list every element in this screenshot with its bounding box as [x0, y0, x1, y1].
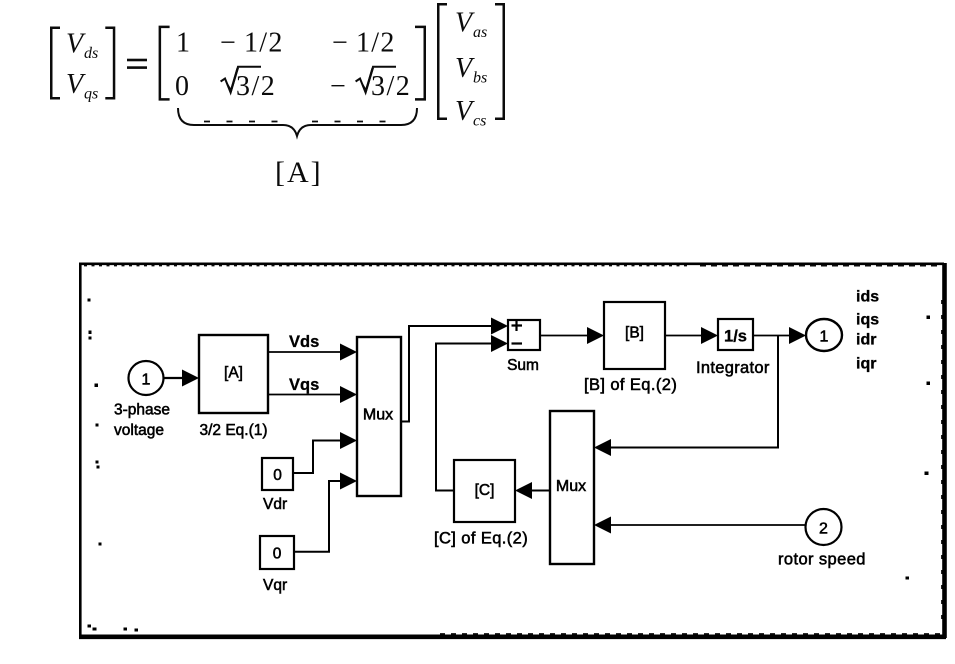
svg-text:− 1/2: − 1/2: [220, 28, 284, 59]
svg-text:1: 1: [176, 28, 190, 59]
svg-text:[B]: [B]: [625, 325, 644, 342]
sum plus sign: [512, 320, 523, 332]
svg-text:Vds: Vds: [289, 333, 319, 351]
svg-text:Sum: Sum: [507, 357, 539, 374]
wire B to integrator: [665, 327, 718, 344]
RHS vector right bracket: [495, 3, 505, 120]
svg-text:Integrator: Integrator: [696, 359, 770, 377]
svg-text:−: −: [330, 71, 346, 102]
scan noise: [84, 266, 942, 634]
svg-text:3/2 Eq.(1): 3/2 Eq.(1): [199, 422, 267, 439]
svg-text:Vdr: Vdr: [263, 496, 287, 513]
svg-text:idr: idr: [856, 332, 876, 349]
inport 2 circle: [806, 509, 842, 545]
equation group: [50, 3, 505, 189]
sum minus sign: [512, 342, 523, 344]
svg-text:V: V: [455, 8, 475, 39]
sum block: [508, 320, 540, 350]
svg-text:Mux: Mux: [556, 478, 586, 495]
wire mux1 to sum plus: [401, 318, 508, 422]
wire Vqs: [268, 386, 357, 403]
svg-text:V: V: [455, 53, 475, 84]
svg-text:as: as: [473, 24, 487, 41]
svg-text:V: V: [455, 96, 475, 127]
svg-text:0: 0: [273, 546, 282, 563]
wire in2 to mux2: [594, 517, 806, 534]
svg-text:cs: cs: [473, 113, 486, 130]
mux 2: [550, 411, 594, 564]
diagram group: [79, 263, 946, 638]
svg-text:[B] of Eq.(2): [B] of Eq.(2): [584, 376, 677, 394]
svg-text:V: V: [66, 69, 86, 100]
wire Vds: [268, 344, 357, 361]
underbrace: [178, 108, 417, 136]
svg-text:1: 1: [142, 372, 151, 389]
svg-text:[C] of Eq.(2): [C] of Eq.(2): [434, 530, 528, 548]
outport 1 circle: [806, 319, 842, 351]
svg-text:rotor speed: rotor speed: [778, 551, 866, 569]
matrix entry -sqrt3/2 (row2 col3): [330, 67, 411, 102]
svg-text:3-phase: 3-phase: [114, 402, 170, 419]
svg-text:iqs: iqs: [856, 312, 879, 329]
matrix right bracket: [415, 26, 426, 101]
svg-text:3/2: 3/2: [371, 71, 411, 102]
svg-text:1/s: 1/s: [724, 328, 747, 346]
equals sign: [127, 59, 147, 62]
wire C to sum minus: [436, 335, 508, 491]
border frame: [79, 263, 946, 638]
block B: [604, 302, 665, 369]
wire mux2 to C: [515, 482, 550, 499]
svg-text:[A]: [A]: [224, 365, 243, 382]
LHS vector left bracket: [50, 27, 60, 100]
svg-text:[A]: [A]: [275, 156, 323, 189]
mux 1: [357, 337, 401, 496]
svg-text:ds: ds: [84, 45, 98, 62]
RHS vector left bracket: [437, 3, 447, 120]
matrix left bracket: [159, 26, 170, 101]
block C: [454, 460, 515, 522]
block A: [199, 335, 268, 413]
wire sum to B: [540, 327, 604, 344]
svg-text:V: V: [66, 29, 86, 60]
svg-text:3/2: 3/2: [236, 71, 276, 102]
svg-text:Mux: Mux: [363, 407, 393, 424]
svg-text:2: 2: [819, 521, 828, 538]
svg-text:ids: ids: [856, 289, 879, 306]
integrator block: [718, 319, 753, 350]
matrix entry sqrt3/2 (row2 col2): [221, 67, 277, 102]
constant Vdr block: [262, 458, 293, 490]
wire in1 to A: [164, 370, 200, 387]
inport 1 circle: [129, 361, 164, 395]
underbrace dashes: [204, 121, 400, 123]
svg-text:[C]: [C]: [475, 482, 495, 499]
wire Vqr to mux: [294, 473, 357, 552]
svg-text:bs: bs: [473, 70, 487, 87]
svg-text:iqr: iqr: [856, 356, 876, 373]
LHS vector right bracket: [105, 27, 115, 100]
constant Vqr block: [260, 536, 294, 569]
svg-text:− 1/2: − 1/2: [332, 28, 396, 59]
svg-text:0: 0: [273, 467, 282, 484]
wire Vdr to mux: [293, 432, 357, 473]
wire integrator to out1: [753, 327, 806, 344]
svg-text:Vqr: Vqr: [263, 577, 287, 594]
svg-text:0: 0: [175, 71, 189, 102]
feedback wire to mux2: [594, 336, 778, 457]
svg-text:Vqs: Vqs: [289, 376, 319, 394]
out labels ids iqs idr iqr: [856, 289, 879, 373]
svg-text:1: 1: [820, 329, 829, 346]
svg-text:qs: qs: [84, 86, 98, 103]
svg-text:voltage: voltage: [114, 422, 164, 439]
